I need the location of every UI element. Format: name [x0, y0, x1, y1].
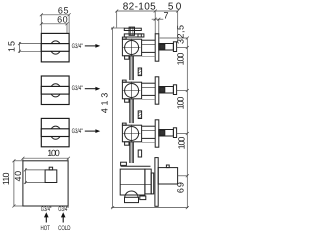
bottom extension line — [111, 207, 188, 209]
svg-text:G3/4": G3/4" — [41, 206, 52, 213]
svg-text:G3/4": G3/4" — [72, 43, 84, 50]
svg-text:32,5: 32,5 — [175, 25, 185, 44]
thermostat body (side) — [120, 162, 154, 195]
svg-text:HOT: HOT — [41, 225, 50, 232]
dimension 15 (handle bar height) — [18, 42, 41, 53]
pipe to thermostat — [130, 142, 142, 163]
connecting pipe 1-2 — [130, 56, 134, 80]
shut-off valve square trim 1 — [41, 33, 69, 62]
dimension 413 (total height) — [111, 27, 125, 210]
arrow right 1 — [85, 44, 100, 48]
svg-text:82-105: 82-105 — [123, 1, 156, 12]
svg-text:69: 69 — [175, 182, 185, 193]
dimension 110 (mixer square height) — [12, 159, 23, 207]
svg-text:100: 100 — [47, 148, 60, 158]
lever handle 3 (side) — [159, 128, 177, 138]
svg-text:G3/4": G3/4" — [58, 206, 69, 213]
svg-text:G3/4": G3/4" — [72, 128, 84, 135]
shut-off valve square trim 3 — [41, 118, 69, 146]
inlet dome — [125, 191, 138, 197]
bracket lines to plates — [142, 56, 155, 142]
thermostatic mixer square trim — [23, 161, 68, 206]
dimension 60 (top square inner width) — [40, 22, 69, 33]
svg-text:COLD: COLD — [58, 225, 71, 232]
lever handle 1 (side) — [159, 42, 177, 52]
pipe stub 1-2 — [138, 68, 141, 76]
wall plate 3 (side) — [155, 120, 159, 147]
dimension 65 (top square outer width) — [40, 13, 71, 33]
dimension 7 (plate thickness) — [152, 11, 164, 34]
wall plate 2 (side) — [155, 77, 159, 104]
valve module 3 (side) — [122, 123, 155, 145]
svg-text:40: 40 — [13, 171, 23, 182]
svg-text:100: 100 — [177, 137, 187, 150]
top outlet fitting — [124, 27, 144, 37]
lever handle 2 (side) — [159, 85, 177, 95]
pipe stub 2-3 — [138, 111, 141, 119]
wall plate 1 (side) — [155, 34, 159, 61]
right dimension chain (32,5 / 100 / 100 / 100 / 69) — [160, 37, 189, 210]
dimension 40 (cartridge box) — [24, 168, 45, 184]
cartridge box — [45, 170, 57, 183]
arrow up COLD — [61, 212, 66, 222]
arrow up HOT — [44, 212, 49, 222]
dimension 82-105 and 50 (depth + handle projection) — [115, 10, 179, 43]
svg-text:100: 100 — [175, 53, 185, 66]
svg-text:60: 60 — [57, 14, 68, 24]
svg-text:50: 50 — [168, 1, 182, 12]
valve module 1 (side) — [122, 37, 155, 59]
arrow right 3 — [85, 129, 100, 133]
shut-off valve square trim 2 — [41, 76, 69, 105]
dimension 100 (mixer square width) — [21, 157, 70, 161]
thermostat wall plate (side) — [155, 158, 158, 207]
svg-text:110: 110 — [1, 173, 11, 186]
thermostat knob (side) — [158, 165, 177, 184]
svg-text:413: 413 — [99, 93, 109, 114]
svg-text:G3/4": G3/4" — [72, 85, 84, 92]
svg-text:100: 100 — [175, 97, 185, 110]
svg-text:7: 7 — [163, 11, 168, 21]
inlet fitting — [125, 196, 146, 203]
svg-text:15: 15 — [7, 41, 17, 52]
cartridge tab — [49, 167, 52, 170]
valve module 2 (side) — [122, 80, 155, 102]
arrow right 2 — [85, 87, 100, 91]
connecting pipe 2-3 — [130, 99, 134, 123]
